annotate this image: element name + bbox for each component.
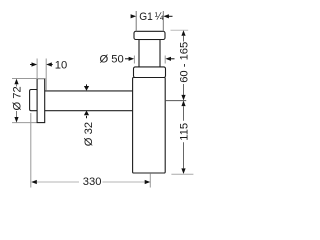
- horizontal pipe bottom edge: [45, 110, 133, 112]
- Ø50 right gray tick: [164, 56, 166, 64]
- dim 10 left extension: [36, 59, 38, 79]
- G1 1/4 right extension line: [162, 11, 164, 31]
- G1 1/4 left arrow: [131, 14, 137, 18]
- 330 dimension line right segment: [103, 181, 146, 183]
- Ø72 dimension line with arrows: [14, 79, 18, 123]
- 330 left extension line: [30, 113, 32, 188]
- svg-text:330: 330: [83, 176, 102, 188]
- wire vertical pipe Ø50 tailpiece: [139, 40, 160, 68]
- trap body cup: [133, 78, 166, 174]
- svg-text:Ø 32: Ø 32: [83, 122, 95, 146]
- union nut flange2: [134, 67, 166, 78]
- 330 dimension line left segment: [37, 181, 80, 183]
- dim 10 right arrow: [46, 62, 53, 66]
- Ø50 right arrow: [165, 57, 174, 61]
- Ø32 top arrow: [84, 84, 89, 90]
- Ø72 top extension line: [12, 78, 45, 80]
- dim 10 right extension: [45, 59, 47, 91]
- dim 10 left arrow: [30, 62, 37, 66]
- wall stub: [30, 90, 38, 111]
- 330 right arrow: [145, 180, 151, 184]
- G1 1/4 left extension line: [135, 11, 137, 31]
- svg-text:G1 ¼: G1 ¼: [139, 11, 164, 23]
- junction extension line: [165, 100, 186, 102]
- 330 left arrow: [31, 180, 37, 184]
- G1 1/4 right arrow: [163, 14, 172, 18]
- Ø50 left gray tick: [133, 56, 135, 64]
- svg-text:Ø 72: Ø 72: [11, 86, 23, 110]
- wall escutcheon flange: [37, 79, 45, 123]
- 60-165 dimension line: [181, 30, 185, 100]
- svg-text:60 - 165: 60 - 165: [178, 42, 190, 83]
- horizontal pipe top edge: [45, 90, 133, 92]
- Ø72 bottom extension line: [12, 122, 37, 124]
- svg-text:10: 10: [55, 60, 67, 72]
- svg-text:115: 115: [178, 123, 190, 141]
- 115 bottom extension line (light): [171, 173, 193, 175]
- top flange G1 1/4 nut: [134, 31, 165, 39]
- 60-165 top extension line (light): [171, 29, 189, 31]
- 330 right extension line: [149, 174, 151, 188]
- 115 dimension line: [181, 101, 185, 175]
- Ø32 bottom arrow: [84, 111, 89, 119]
- svg-text:Ø 50: Ø 50: [100, 54, 124, 66]
- Ø50 leader arrow: [125, 57, 134, 61]
